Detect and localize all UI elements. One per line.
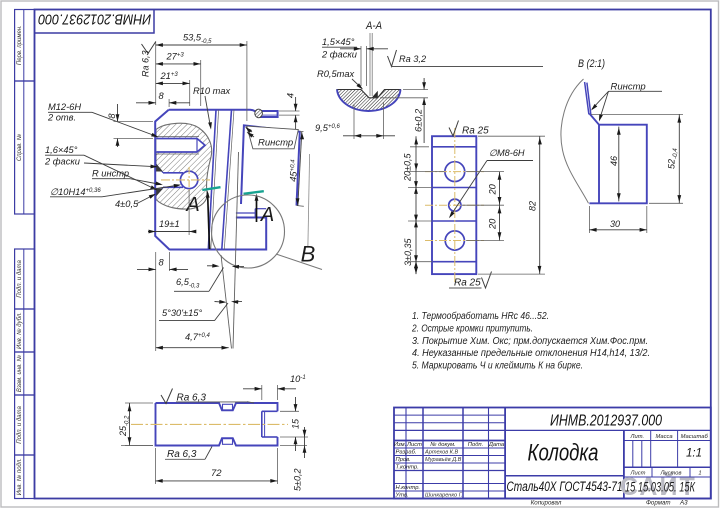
svg-text:М12-6Н: М12-6Н	[48, 102, 81, 112]
svg-text:Сталь40Х ГОСТ4543-71: Сталь40Х ГОСТ4543-71	[507, 479, 623, 494]
svg-text:4: 4	[285, 93, 295, 98]
svg-text:R инстр: R инстр	[92, 169, 129, 179]
svg-text:20: 20	[488, 183, 498, 195]
svg-text:1. Термообработать HRc 46...52: 1. Термообработать HRc 46...52.	[412, 311, 549, 322]
svg-text:А: А	[260, 204, 274, 226]
svg-text:А3: А3	[679, 500, 688, 507]
svg-text:2 фаски: 2 фаски	[321, 50, 357, 60]
svg-text:Муравьёв Д.В: Муравьёв Д.В	[425, 457, 462, 463]
svg-text:Разраб.: Разраб.	[396, 450, 417, 456]
svg-text:Колодка: Колодка	[528, 440, 599, 467]
svg-text:Лит.: Лит.	[630, 434, 645, 440]
svg-text:Перв. примен.: Перв. примен.	[17, 25, 23, 65]
svg-text:∅М8-6Н: ∅М8-6Н	[489, 148, 525, 158]
svg-text:6±0,2: 6±0,2	[414, 108, 424, 132]
svg-text:Дата: Дата	[488, 442, 505, 448]
svg-text:В (2:1): В (2:1)	[578, 58, 605, 70]
svg-text:82: 82	[528, 201, 538, 211]
svg-text:Пров.: Пров.	[396, 457, 411, 463]
svg-text:R0,5max: R0,5max	[317, 69, 355, 79]
svg-text:Подп. и дата: Подп. и дата	[17, 406, 23, 444]
svg-text:№ докум.: № докум.	[430, 442, 456, 448]
svg-text:19±1: 19±1	[159, 219, 180, 229]
svg-text:Листов: Листов	[659, 471, 681, 477]
svg-text:8: 8	[159, 91, 165, 101]
svg-text:Подп. и дата: Подп. и дата	[17, 260, 23, 298]
svg-text:Ra 6,3: Ra 6,3	[141, 50, 151, 77]
svg-text:Копировал: Копировал	[531, 500, 562, 507]
svg-text:72: 72	[211, 468, 222, 479]
svg-text:ИНМВ.2012937.000: ИНМВ.2012937.000	[38, 10, 151, 26]
svg-text:8: 8	[159, 258, 165, 268]
svg-text:Лист: Лист	[406, 442, 422, 448]
svg-text:Масса: Масса	[656, 434, 674, 440]
svg-text:Инв. № подл.: Инв. № подл.	[16, 458, 23, 495]
svg-text:1,5×45°: 1,5×45°	[322, 37, 355, 47]
svg-text:15: 15	[291, 418, 301, 429]
svg-text:Лист: Лист	[630, 471, 646, 477]
svg-text:Взам. инв. №: Взам. инв. №	[16, 354, 23, 392]
svg-text:4±0,5: 4±0,5	[115, 199, 139, 209]
svg-text:Т.контр.: Т.контр.	[396, 465, 419, 471]
svg-text:5±0,2: 5±0,2	[293, 469, 303, 491]
svg-text:Масштаб: Масштаб	[681, 434, 709, 440]
svg-text:2. Острые кромки притупить.: 2. Острые кромки притупить.	[411, 323, 533, 334]
svg-text:Шинкаренко Г.: Шинкаренко Г.	[425, 493, 463, 499]
svg-text:3. Покрытие Хим. Окс; прм.допу: 3. Покрытие Хим. Окс; прм.допускается Хи…	[412, 336, 648, 347]
svg-text:Ra 3,2: Ra 3,2	[399, 54, 426, 64]
svg-text:5. Маркировать Ч и клеймить К: 5. Маркировать Ч и клеймить К на бирке.	[412, 361, 583, 372]
svg-text:А-А: А-А	[365, 20, 382, 32]
svg-text:46: 46	[609, 156, 619, 166]
svg-text:Формат: Формат	[646, 500, 671, 507]
svg-text:Ra 25: Ra 25	[462, 126, 489, 137]
svg-text:2 фаски: 2 фаски	[44, 157, 80, 167]
svg-text:А: А	[185, 194, 199, 216]
svg-text:1,6×45°: 1,6×45°	[45, 145, 78, 155]
svg-text:30: 30	[610, 219, 620, 229]
svg-text:ИНМВ.2012937.000: ИНМВ.2012937.000	[550, 413, 662, 430]
svg-text:1: 1	[698, 471, 701, 477]
svg-text:Утв.: Утв.	[395, 493, 409, 499]
svg-text:8: 8	[107, 113, 117, 119]
svg-text:Изм.: Изм.	[394, 442, 406, 448]
svg-text:R10 max: R10 max	[193, 86, 231, 96]
svg-text:Справ. №: Справ. №	[16, 133, 23, 161]
svg-text:15 15.03.05. 15К: 15 15.03.05. 15К	[625, 480, 696, 495]
svg-text:20±0,5: 20±0,5	[403, 153, 413, 182]
svg-text:Н.контр.: Н.контр.	[396, 485, 421, 491]
svg-text:5°30'±15°: 5°30'±15°	[162, 308, 202, 318]
svg-text:2 отв.: 2 отв.	[47, 113, 76, 123]
svg-text:1:1: 1:1	[686, 448, 702, 460]
svg-text:Ra 6,3: Ra 6,3	[167, 449, 197, 460]
svg-text:Rинстр: Rинстр	[611, 82, 646, 93]
svg-text:Инв. № дубл.: Инв. № дубл.	[16, 312, 23, 349]
svg-text:Подп.: Подп.	[468, 442, 483, 448]
svg-text:Rинстр: Rинстр	[258, 138, 293, 149]
svg-text:4. Неуказанные предельные откл: 4. Неуказанные предельные отклонения Н14…	[412, 348, 650, 359]
svg-text:20: 20	[488, 218, 498, 230]
svg-text:Артехов К.В: Артехов К.В	[424, 450, 459, 456]
svg-text:Ra 25: Ra 25	[454, 278, 481, 289]
svg-text:3±0,35: 3±0,35	[403, 238, 413, 266]
